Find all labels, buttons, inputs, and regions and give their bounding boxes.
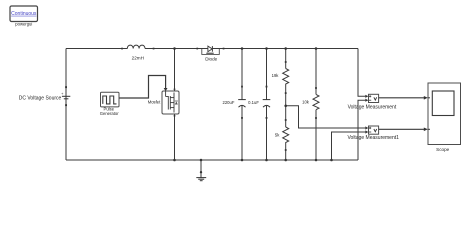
diode D1 xyxy=(196,46,224,54)
svg-text:Voltage Measurement1: Voltage Measurement1 xyxy=(347,135,399,141)
mosfet source port xyxy=(174,115,176,117)
svg-text:Continuous: Continuous xyxy=(11,11,37,17)
resistor R3 10k xyxy=(313,87,319,119)
resistor R3 10k branch wire xyxy=(315,49,317,95)
capacitor C2 0.1uF branch wire xyxy=(266,49,268,100)
svg-text:Voltage Measurement: Voltage Measurement xyxy=(348,104,397,110)
pulse generator label xyxy=(100,106,119,115)
ground xyxy=(196,160,206,181)
MOSFET Q1 block xyxy=(162,91,179,114)
svg-text:0.1uF: 0.1uF xyxy=(248,100,259,105)
junction node at divider tap xyxy=(284,105,287,108)
svg-text:10k: 10k xyxy=(302,100,310,105)
svg-text:19k: 19k xyxy=(272,73,280,78)
wire left vertical (source branch) xyxy=(65,49,67,161)
svg-text:220uF: 220uF xyxy=(223,100,235,105)
signal wire VM to scope xyxy=(379,96,428,100)
wire bottom rail xyxy=(66,159,358,161)
resistor chain branch wire (19k/5k) xyxy=(285,49,287,69)
powergui block xyxy=(10,6,38,22)
junction node on top rail at R1 xyxy=(284,47,287,50)
junction node on top rail at mosfet xyxy=(173,47,176,50)
junction node on bottom rail at R2 xyxy=(284,159,287,162)
junction node on top rail at C2 xyxy=(265,47,268,50)
scope block xyxy=(428,83,461,145)
resistor R1 19k xyxy=(283,61,289,94)
svg-text:Scope: Scope xyxy=(436,147,449,152)
junction node on bottom rail at VM1 minus branch xyxy=(330,159,333,162)
wire divider tap to VM1 plus input xyxy=(286,106,366,128)
junction node on top rail at C1 xyxy=(241,47,244,50)
resistor R2 5k xyxy=(283,119,289,151)
wire bottom rail to VM1 minus input xyxy=(332,132,366,160)
mosfet drain port xyxy=(174,89,176,91)
wire top rail right segment xyxy=(224,48,359,50)
inductor L1 22mH xyxy=(121,45,154,49)
junction node on bottom rail at mosfet xyxy=(173,159,176,162)
svg-text:powergui: powergui xyxy=(15,21,32,26)
svg-text:DC Voltage Source: DC Voltage Source xyxy=(19,95,62,101)
junction node on bottom rail at C1 xyxy=(241,159,244,162)
svg-text:22mH: 22mH xyxy=(132,56,144,61)
wire top rail left segment xyxy=(66,48,122,50)
gate wire from pulse generator to mosfet xyxy=(119,76,168,99)
svg-text:Generator: Generator xyxy=(100,111,119,116)
DC voltage source V1 xyxy=(61,86,70,106)
signal wire VM1 to scope xyxy=(379,128,428,132)
capacitor C1 220uF xyxy=(238,86,246,119)
mosfet drain wire xyxy=(174,49,176,92)
wire top rail middle segment xyxy=(154,48,198,50)
mosfet source wire xyxy=(174,114,176,160)
svg-text:Mosfet: Mosfet xyxy=(148,100,161,105)
pulse generator block xyxy=(101,92,120,107)
junction node on bottom rail at C2 xyxy=(265,159,268,162)
capacitor C1 220uF branch wire xyxy=(241,49,243,100)
wire top rail to VM plus input xyxy=(358,49,365,97)
voltage measurement U1 block xyxy=(365,94,378,102)
wire bottom rail to VM minus input xyxy=(358,100,365,160)
junction node on bottom rail at ground xyxy=(200,159,203,162)
junction node on bottom rail at R3 xyxy=(315,159,318,162)
capacitor C2 0.1uF xyxy=(263,86,271,119)
svg-text:Diode: Diode xyxy=(205,56,217,61)
junction node on top rail at R3 xyxy=(315,47,318,50)
voltage measurement U2 block xyxy=(365,126,378,134)
